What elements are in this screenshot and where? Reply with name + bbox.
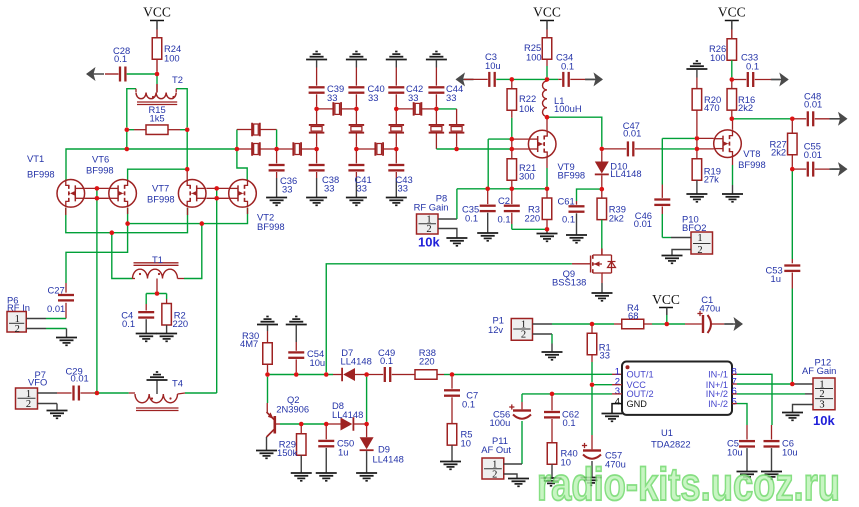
junction — [590, 322, 595, 327]
junction — [790, 382, 795, 387]
ground — [537, 233, 558, 235]
wire — [504, 463, 522, 465]
crystal — [395, 109, 397, 124]
wire — [547, 117, 602, 147]
ground — [734, 317, 744, 331]
capacitor C28 — [105, 73, 119, 75]
svg-text:GND: GND — [627, 399, 648, 409]
wire — [512, 228, 547, 230]
svg-text:0.01: 0.01 — [71, 373, 89, 384]
ground — [602, 413, 623, 415]
junction — [394, 147, 399, 152]
svg-text:0.01: 0.01 — [634, 218, 652, 229]
svg-text:2: 2 — [26, 399, 31, 410]
svg-text:470u: 470u — [700, 303, 721, 314]
capacitor C44 — [428, 86, 444, 88]
ground — [838, 112, 848, 126]
junction — [299, 422, 304, 427]
junction — [324, 422, 329, 427]
junction — [454, 147, 459, 152]
ground — [86, 67, 96, 81]
ground — [395, 51, 397, 53]
svg-text:AF Gain: AF Gain — [802, 365, 836, 376]
wire — [435, 60, 437, 68]
wire — [26, 328, 46, 330]
wire gate2 — [662, 148, 694, 150]
capacitor C48 — [792, 118, 806, 120]
wire — [487, 139, 489, 189]
wire — [356, 148, 375, 150]
ground — [440, 461, 461, 463]
ground — [315, 51, 317, 53]
ground — [761, 471, 782, 473]
ground — [266, 197, 287, 199]
svg-text:BF998: BF998 — [738, 159, 766, 170]
svg-text:33: 33 — [357, 183, 367, 194]
svg-text:2: 2 — [521, 330, 526, 341]
junction — [545, 227, 550, 232]
wire pin7 — [732, 383, 737, 385]
wire — [395, 60, 397, 68]
ground — [696, 60, 698, 62]
junction — [110, 230, 115, 235]
resistor R39 — [601, 189, 603, 198]
junction — [510, 77, 515, 82]
svg-text:33: 33 — [398, 183, 408, 194]
ground — [306, 197, 327, 199]
transistor VT8 — [714, 130, 742, 158]
svg-text:300: 300 — [519, 171, 535, 182]
svg-text:150k: 150k — [277, 447, 298, 458]
svg-text:10k: 10k — [519, 103, 534, 114]
svg-text:VCC: VCC — [652, 292, 680, 307]
wire — [280, 423, 326, 425]
junction — [790, 117, 795, 122]
svg-text:VT6: VT6 — [92, 154, 109, 165]
wire — [237, 148, 252, 150]
junction — [510, 137, 515, 142]
svg-text:10k: 10k — [813, 413, 835, 428]
svg-text:VFO: VFO — [28, 377, 47, 388]
capacitor C27 — [65, 283, 67, 293]
svg-text:4: 4 — [615, 396, 620, 407]
svg-text:33: 33 — [327, 92, 337, 103]
wire — [185, 392, 217, 394]
wire — [512, 78, 547, 80]
wire — [38, 403, 58, 405]
junction — [214, 196, 219, 201]
svg-text:10u: 10u — [485, 60, 501, 71]
junction — [364, 372, 369, 377]
junction — [545, 77, 550, 82]
wire — [260, 148, 277, 150]
wire — [126, 130, 128, 149]
junction — [314, 107, 319, 112]
svg-text:0.1: 0.1 — [465, 213, 478, 224]
svg-text:IN-/2: IN-/2 — [708, 399, 728, 409]
svg-text:0.1: 0.1 — [380, 355, 393, 366]
svg-text:BF998: BF998 — [257, 221, 285, 232]
wire — [436, 148, 456, 150]
resistor R2 — [166, 294, 168, 300]
svg-text:33: 33 — [408, 92, 418, 103]
capacitor C38 — [316, 149, 318, 163]
wire — [438, 229, 457, 239]
svg-text:1u: 1u — [771, 273, 781, 284]
wire — [791, 289, 793, 385]
wire line B — [128, 169, 188, 180]
ground — [266, 316, 268, 318]
svg-text:2: 2 — [819, 389, 824, 400]
capacitor C34 — [547, 78, 558, 80]
wire — [366, 377, 368, 422]
svg-text:10k: 10k — [418, 234, 440, 249]
junction — [155, 72, 160, 77]
diode D10 — [601, 151, 603, 161]
capacitor C57 — [591, 387, 593, 435]
wire — [146, 293, 166, 295]
diode D9 — [366, 424, 368, 437]
wire — [186, 130, 188, 168]
svg-text:2N3906: 2N3906 — [276, 403, 309, 414]
svg-text:100: 100 — [526, 52, 542, 63]
ground — [256, 450, 277, 452]
svg-text:33: 33 — [368, 92, 378, 103]
wire — [533, 333, 553, 335]
wire VT8 drain — [732, 117, 734, 130]
ground — [446, 237, 467, 239]
capacitor C5 — [746, 425, 748, 440]
capacitor C62 — [551, 396, 553, 410]
crystal — [355, 109, 357, 124]
svg-text:0.01: 0.01 — [804, 99, 822, 110]
junction — [590, 382, 595, 387]
junction — [545, 115, 550, 120]
ground — [136, 333, 157, 335]
svg-text:0.1: 0.1 — [122, 318, 135, 329]
svg-text:T2: T2 — [172, 74, 183, 85]
wire — [186, 169, 188, 180]
ground — [782, 412, 803, 414]
junction — [695, 147, 700, 152]
wire — [260, 129, 277, 131]
capacitor C61 — [577, 189, 602, 201]
crystal ZQ4 — [332, 102, 334, 116]
wire — [127, 73, 157, 75]
resistor R5 — [447, 424, 457, 446]
wire pin5 — [732, 403, 737, 405]
transformer T4 — [129, 392, 135, 394]
wire — [396, 108, 413, 110]
wire VT2 drain — [237, 149, 247, 180]
op-amp U1 TDA2822 — [622, 362, 732, 415]
junction — [695, 136, 700, 141]
ground — [355, 51, 357, 53]
svg-text:IN-/1: IN-/1 — [708, 370, 728, 380]
transistor VT1 — [57, 180, 85, 208]
svg-text:IN+/2: IN+/2 — [706, 389, 728, 399]
svg-text:VCC: VCC — [718, 5, 746, 20]
svg-text:RF Gain: RF Gain — [414, 202, 449, 213]
resistor R29 — [300, 424, 302, 434]
crystal ZQ6 — [413, 102, 415, 116]
svg-text:0.1: 0.1 — [498, 214, 511, 225]
ground — [737, 471, 758, 473]
wire VT9 source — [546, 158, 548, 168]
svg-text:2: 2 — [697, 245, 702, 256]
wire — [511, 139, 513, 149]
resistor R22 — [511, 79, 513, 89]
junction — [155, 291, 160, 296]
svg-text:27k: 27k — [704, 174, 719, 185]
capacitor C39 — [309, 86, 325, 88]
svg-text:2: 2 — [492, 469, 497, 480]
junction — [354, 147, 359, 152]
wire line C sources VT1-VT7 — [66, 208, 188, 233]
wire — [236, 130, 238, 150]
svg-text:0.1: 0.1 — [462, 398, 475, 409]
transistor Q9 — [601, 249, 603, 256]
wire VT8 source — [732, 157, 734, 165]
wire — [26, 318, 46, 320]
capacitor C1 — [667, 323, 685, 325]
capacitor C46 — [661, 185, 663, 198]
svg-text:100: 100 — [710, 52, 726, 63]
wire gate lines VT1-VT6 — [85, 187, 109, 189]
transformer T1 — [112, 233, 133, 279]
ground — [156, 333, 177, 335]
capacitor C7 — [451, 377, 453, 389]
svg-text:BSS138: BSS138 — [552, 277, 586, 288]
svg-text:68: 68 — [628, 310, 638, 321]
svg-text:BF998: BF998 — [558, 169, 586, 180]
svg-text:0.1: 0.1 — [561, 61, 574, 72]
wire pin8 — [732, 373, 737, 375]
resistor R4 — [592, 323, 614, 325]
ground — [779, 73, 789, 87]
svg-text:0.01: 0.01 — [804, 149, 822, 160]
wire pin4 GND — [612, 404, 622, 414]
capacitor C33 — [732, 79, 746, 81]
wire — [488, 138, 512, 140]
svg-text:AF Out: AF Out — [481, 444, 511, 455]
junction — [790, 167, 795, 172]
junction — [485, 187, 490, 192]
svg-text:BF998: BF998 — [27, 169, 55, 180]
svg-text:LL4148: LL4148 — [341, 356, 372, 367]
resistor R16 — [731, 80, 733, 89]
wire — [512, 148, 529, 150]
svg-text:C27: C27 — [48, 285, 65, 296]
capacitor C35 — [487, 189, 489, 204]
svg-text:10: 10 — [461, 438, 471, 449]
capacitor C55 — [792, 168, 806, 170]
capacitor C47 — [602, 148, 627, 150]
svg-text:U1: U1 — [661, 427, 673, 438]
wire — [793, 405, 814, 413]
resistor R15 — [127, 129, 134, 131]
capacitor C6 — [771, 425, 773, 440]
junction — [95, 186, 100, 191]
ground — [56, 337, 77, 339]
ground — [592, 292, 613, 294]
junction — [665, 322, 670, 327]
svg-text:T4: T4 — [172, 378, 183, 389]
wire — [341, 108, 356, 110]
junction — [265, 372, 270, 377]
capacitor C3 — [464, 78, 488, 80]
capacitor C43 — [395, 149, 397, 163]
crystal ZQ3 — [292, 142, 294, 156]
ground — [594, 72, 604, 86]
wire — [317, 108, 334, 110]
wire — [355, 60, 357, 68]
ground — [316, 472, 337, 474]
junction — [600, 187, 605, 192]
svg-text:0.01: 0.01 — [47, 303, 65, 314]
ground — [456, 72, 466, 86]
svg-text:33: 33 — [600, 350, 610, 361]
junction — [545, 187, 550, 192]
junction — [324, 372, 329, 377]
wire — [601, 283, 603, 293]
wire — [316, 60, 318, 68]
svg-text:2k2: 2k2 — [771, 147, 786, 158]
svg-text:2k2: 2k2 — [609, 213, 624, 224]
junction — [95, 196, 100, 201]
svg-text:5: 5 — [732, 396, 737, 407]
svg-text:C61: C61 — [558, 196, 575, 207]
junction — [730, 117, 735, 122]
wire — [457, 148, 512, 150]
wire pin3 — [522, 393, 612, 395]
wire VT9 drain — [546, 117, 548, 130]
svg-text:1u: 1u — [338, 447, 348, 458]
capacitor C40 — [348, 86, 364, 88]
svg-text:2k2: 2k2 — [738, 102, 753, 113]
svg-text:0.01: 0.01 — [623, 128, 641, 139]
wire — [267, 377, 269, 403]
svg-text:BF998: BF998 — [147, 194, 175, 205]
ground — [581, 477, 602, 479]
capacitor C50 — [325, 424, 327, 439]
wire — [438, 218, 457, 220]
junction — [550, 392, 555, 397]
wire — [97, 392, 129, 394]
resistor R27 — [791, 119, 793, 133]
wire bias bus — [457, 188, 547, 190]
wire — [662, 237, 671, 239]
junction — [185, 167, 190, 172]
wire pin2 — [592, 384, 612, 386]
wire LO feed right — [216, 188, 218, 393]
capacitor C29 — [38, 392, 58, 394]
transistor VT9 — [528, 130, 556, 158]
crystal ZQ5 — [374, 142, 376, 156]
svg-text:LL4148: LL4148 — [373, 453, 404, 464]
capacitor C42 — [388, 86, 404, 88]
wire line A — [66, 149, 237, 180]
capacitor C54 — [295, 325, 297, 342]
svg-text:LL4148: LL4148 — [332, 409, 363, 420]
wire — [383, 148, 396, 150]
svg-text:12v: 12v — [488, 324, 503, 335]
svg-text:C2: C2 — [498, 195, 510, 206]
wire RF input line — [66, 224, 128, 283]
junction — [125, 221, 130, 226]
svg-text:VT7: VT7 — [152, 183, 169, 194]
svg-text:VT1: VT1 — [27, 153, 44, 164]
wire — [546, 229, 548, 233]
svg-text:1k5: 1k5 — [150, 113, 165, 124]
resistor R1 — [591, 324, 593, 334]
capacitor C53 — [791, 169, 793, 259]
svg-text:BFO2: BFO2 — [682, 222, 707, 233]
svg-text:OUT/2: OUT/2 — [627, 389, 654, 399]
wire — [601, 220, 603, 249]
wire — [301, 148, 317, 150]
svg-text:100uH: 100uH — [554, 103, 582, 114]
ground — [47, 410, 68, 412]
junction — [235, 147, 240, 152]
capacitor C49 — [367, 374, 384, 376]
ground — [477, 232, 498, 234]
svg-text:10u: 10u — [727, 447, 743, 458]
wire — [504, 474, 517, 479]
ground — [722, 193, 743, 195]
capacitor C36 — [276, 149, 278, 163]
resistor R26 — [727, 39, 737, 61]
resistor R24 — [156, 38, 158, 40]
svg-text:OUT/1: OUT/1 — [627, 370, 654, 380]
svg-text:220: 220 — [173, 318, 189, 329]
svg-text:LL4148: LL4148 — [610, 168, 641, 179]
svg-text:470: 470 — [704, 102, 720, 113]
diode D7 — [333, 374, 342, 376]
ground — [156, 371, 158, 373]
svg-text:VCC: VCC — [143, 5, 171, 20]
crystal — [316, 109, 318, 124]
wire AGC line — [268, 374, 334, 376]
transistor Q2 — [266, 403, 268, 412]
svg-text:33: 33 — [282, 184, 292, 195]
resistor R19 — [696, 149, 698, 159]
junction — [600, 147, 605, 152]
ground — [686, 193, 707, 195]
ground — [542, 351, 563, 353]
junction — [185, 127, 190, 132]
crystal ZQ2 — [251, 142, 253, 156]
ground — [541, 477, 562, 479]
junction — [730, 77, 735, 82]
svg-text:TDA2822: TDA2822 — [651, 439, 691, 450]
ground — [435, 51, 437, 53]
svg-text:220: 220 — [525, 213, 541, 224]
ground — [295, 316, 297, 318]
svg-text:220: 220 — [419, 356, 435, 367]
junction — [274, 147, 279, 152]
svg-text:radio-kits.ucoz.ru: radio-kits.ucoz.ru — [537, 458, 840, 507]
wire — [533, 323, 553, 325]
svg-text:0.1: 0.1 — [746, 61, 759, 72]
ground — [566, 234, 587, 236]
capacitor C41 — [355, 149, 357, 163]
wire pin6 — [732, 393, 737, 395]
svg-text:3: 3 — [819, 400, 824, 411]
junction — [434, 107, 439, 112]
junction — [450, 372, 455, 377]
wire — [156, 74, 158, 84]
